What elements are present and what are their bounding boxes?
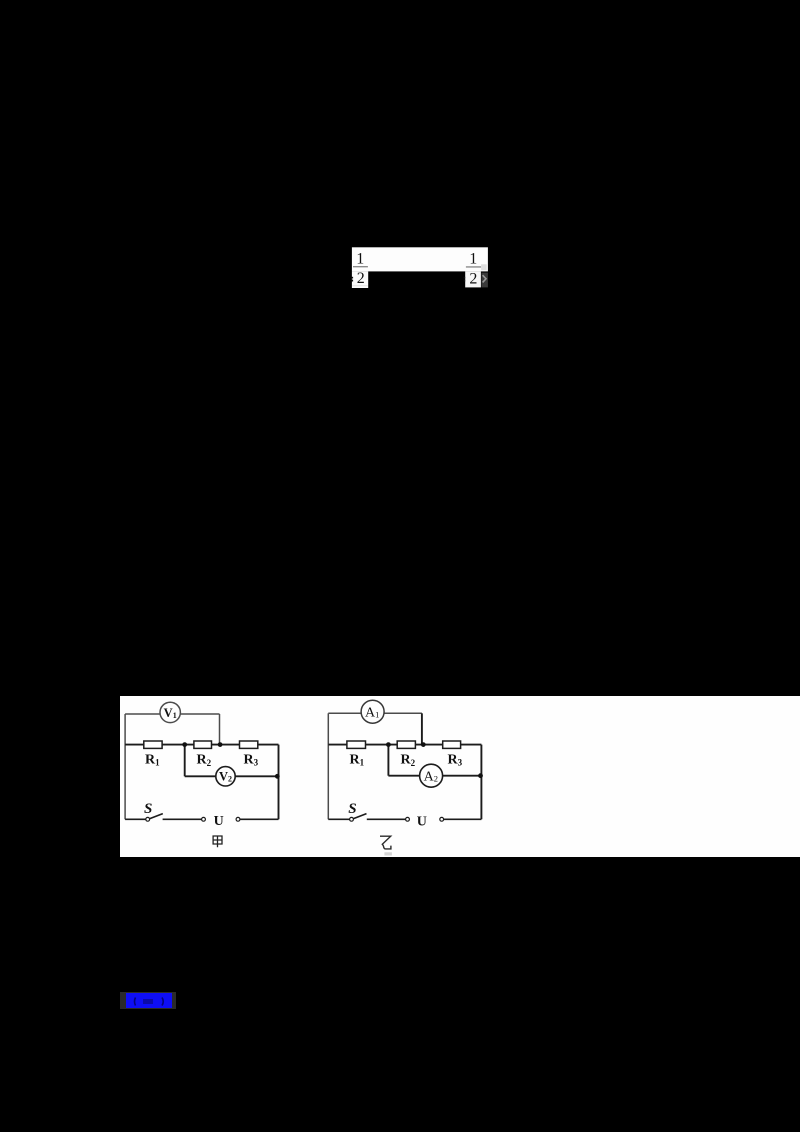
- answer label blue highlight: [126, 993, 172, 1008]
- white band: [352, 247, 488, 271]
- wire: drop from top wire to main: [421, 713, 423, 744]
- svg-text:S: S: [348, 801, 356, 817]
- answer label bracket marks: [126, 994, 172, 1009]
- faint underline below yi: [384, 852, 392, 855]
- caption yi (CJK drawn): [380, 836, 391, 849]
- svg-text:S: S: [144, 801, 152, 817]
- wire: right vertical: [278, 745, 280, 820]
- circuit figure white panel: [120, 696, 800, 857]
- svg-text:2: 2: [357, 270, 365, 287]
- equals stub left of F2: [464, 277, 466, 279]
- wire: V2 branch horizontal: [185, 775, 279, 777]
- equals stub left of F1: [352, 277, 354, 279]
- svg-text:U: U: [214, 814, 224, 829]
- svg-text:1: 1: [356, 250, 364, 267]
- wire: drop from top wire to main: [219, 714, 221, 745]
- switch pivot circle: [350, 817, 354, 821]
- wire: bottom left segment: [328, 818, 350, 820]
- junction dot node e: [421, 742, 426, 747]
- ammeter A1: [361, 700, 384, 723]
- wire: main line: [125, 744, 278, 746]
- terminal circle right of U: [440, 817, 444, 821]
- wire: main line: [328, 744, 481, 746]
- voltmeter V1: [160, 702, 180, 722]
- wire: top horizontal through A1: [328, 712, 422, 714]
- resistor R3b: [443, 741, 461, 748]
- switch pivot circle: [146, 817, 150, 821]
- junction dot node d: [386, 742, 391, 747]
- formula strip with two 1/2 fractions: [344, 240, 496, 292]
- terminal circle right of U: [236, 817, 240, 821]
- wire: right vertical: [480, 745, 482, 820]
- answer label gray backing: [120, 992, 176, 1009]
- fraction F1 box lower: [352, 271, 368, 288]
- junction dot node c: [275, 774, 280, 779]
- switch S lever: [150, 814, 163, 819]
- resistor R2b: [397, 741, 415, 748]
- junction dot node f: [478, 773, 483, 778]
- wire: left vertical: [124, 714, 126, 819]
- resistor R1b: [347, 741, 366, 748]
- wire: right terminal to right vertical: [444, 818, 482, 820]
- svg-text:1: 1: [469, 250, 477, 267]
- ammeter A2: [420, 764, 443, 787]
- svg-text:2: 2: [469, 271, 477, 288]
- fraction F1 bar: [353, 266, 368, 267]
- fraction F2 gray patch: [481, 264, 487, 270]
- wire: A2 branch vertical: [387, 745, 389, 776]
- wire: bottom left segment: [125, 818, 146, 820]
- voltmeter V2: [216, 767, 235, 786]
- resistor R3: [240, 741, 258, 748]
- fraction F1 faint underline: [352, 285, 368, 286]
- caption jia (CJK drawn): [213, 836, 222, 847]
- chevron box right of F2: [481, 273, 488, 288]
- wire: left vertical: [327, 713, 329, 819]
- resistor R1: [144, 741, 162, 748]
- fraction F2 box lower: [465, 271, 481, 287]
- junction dot node a: [182, 742, 187, 747]
- wire: switch to left terminal: [367, 818, 406, 820]
- terminal circle left of U: [202, 817, 206, 821]
- wire: switch to left terminal: [163, 818, 202, 820]
- wire: right terminal to right vertical: [240, 818, 279, 820]
- terminal circle left of U: [406, 817, 410, 821]
- switch S lever: [353, 814, 366, 819]
- wire: top horizontal through V1: [125, 713, 219, 715]
- svg-text:U: U: [417, 815, 427, 830]
- resistor R2: [194, 741, 212, 748]
- wire: V2 branch vertical: [184, 745, 186, 777]
- junction dot node b: [218, 742, 223, 747]
- wire: A2 branch horizontal: [388, 775, 481, 777]
- fraction F2 bar: [466, 266, 481, 267]
